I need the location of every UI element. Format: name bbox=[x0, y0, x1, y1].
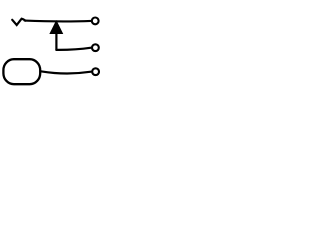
label bubble (stadium shape) bbox=[3, 59, 40, 84]
terminal circle middle bbox=[92, 44, 99, 51]
bottom wire bbox=[42, 71, 92, 73]
diode arrow (filled triangle, tip on top wire) bbox=[50, 21, 62, 33]
middle wire (elbow to terminal) bbox=[56, 48, 91, 50]
terminal circle top bbox=[92, 18, 99, 25]
terminal circle bottom bbox=[92, 68, 99, 75]
diode anode wire (vertical) bbox=[55, 33, 57, 50]
wire kink (hand-drawn check at wire start) bbox=[12, 19, 25, 25]
top wire bbox=[25, 20, 92, 23]
